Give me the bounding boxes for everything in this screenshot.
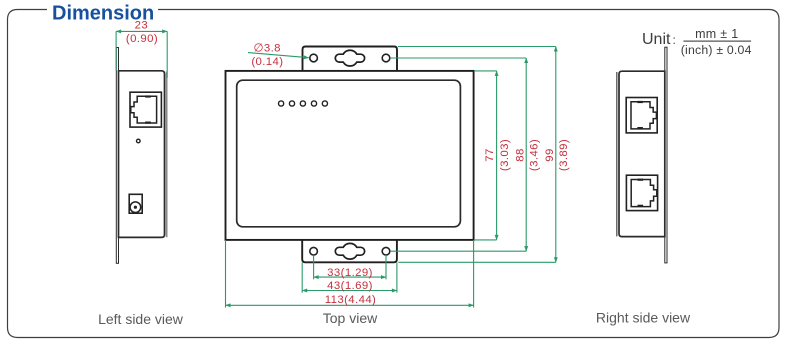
left view body	[119, 71, 165, 238]
left view dim 23 extension left	[115, 31, 117, 70]
dim 43 line	[302, 290, 397, 292]
svg-text:(0.90): (0.90)	[126, 33, 158, 45]
bottom tab right hole	[382, 247, 390, 255]
right view RJ45 jack 1 tab top	[637, 101, 643, 103]
svg-text:33(1.29): 33(1.29)	[327, 267, 373, 279]
top tab right hole	[382, 54, 390, 62]
right view RJ45 port 2 outer	[626, 175, 657, 210]
top view device body	[237, 80, 461, 227]
left view DC jack pin	[134, 206, 137, 209]
bottom tab keyhole slot	[335, 243, 364, 259]
svg-text:(3.03): (3.03)	[499, 139, 511, 171]
right view RJ45 jack 2 tab top	[638, 179, 644, 181]
LED hole 2	[289, 101, 294, 106]
dim 113 line	[226, 304, 474, 306]
svg-text:99: 99	[544, 148, 556, 161]
right view RJ45 jack 2 tab bottom	[638, 205, 644, 207]
left view dim 23 line	[116, 30, 167, 32]
right view body	[619, 71, 665, 236]
left view DC jack barrel circle	[130, 202, 141, 213]
svg-text:(3.46): (3.46)	[529, 139, 541, 171]
svg-text:43(1.69): 43(1.69)	[327, 280, 373, 292]
dim 33 line	[314, 276, 386, 278]
dim 99 extension lines	[398, 46, 556, 48]
left view RJ45 contact tab top	[145, 95, 151, 97]
dim 99 line	[555, 47, 557, 263]
dim 113 extension lines	[225, 240, 227, 308]
top view bottom tab	[302, 240, 397, 262]
unit fraction bar	[683, 40, 751, 42]
top tab left hole	[310, 54, 318, 62]
left view RJ45 port outer	[130, 92, 161, 127]
left view small hole	[137, 139, 141, 143]
LED hole 3	[300, 101, 305, 106]
svg-text:113(4.44): 113(4.44)	[325, 294, 377, 306]
right view RJ45 jack 1 tab bottom	[637, 127, 643, 129]
svg-text:Top view: Top view	[323, 310, 378, 326]
svg-text:mm ± 1: mm ± 1	[695, 27, 738, 41]
hole diameter leader line	[248, 53, 309, 58]
svg-text:77: 77	[484, 148, 496, 161]
svg-text:(0.14): (0.14)	[251, 56, 283, 68]
bottom tab left hole	[310, 247, 318, 255]
top tab keyhole slot	[335, 50, 364, 66]
svg-text:(3.89): (3.89)	[558, 139, 570, 171]
top view mounting plate	[226, 71, 474, 240]
left view RJ45 jack silhouette	[131, 96, 157, 123]
svg-text:88: 88	[515, 148, 527, 161]
right view RJ45 port 1 outer	[626, 98, 657, 133]
left view RJ45 contact tab bottom	[145, 122, 151, 124]
dim 77 line	[496, 71, 498, 240]
dim 77 extension lines	[474, 70, 497, 72]
LED hole 5	[322, 101, 327, 106]
left view dim 23 extension right	[166, 31, 168, 77]
LED hole 4	[311, 101, 316, 106]
top view top tab	[303, 47, 398, 71]
svg-text:Right side view: Right side view	[596, 310, 691, 326]
right view RJ45 jack 1 silhouette	[631, 102, 656, 129]
left view body shadow edge	[166, 72, 168, 238]
right view RJ45 jack 2 silhouette	[631, 180, 657, 207]
svg-text:23: 23	[135, 20, 148, 32]
right view body shadow edge	[616, 72, 618, 236]
dim 88 line	[525, 58, 527, 251]
LED hole 1	[279, 101, 284, 106]
left view DC jack rect	[129, 194, 142, 213]
left view mounting flange plate	[116, 48, 118, 264]
dim 88 extension lines	[390, 57, 526, 59]
svg-text:(inch) ± 0.04: (inch) ± 0.04	[681, 43, 752, 57]
right view mounting flange plate	[665, 47, 667, 263]
dim 33 extension lines	[313, 255, 315, 279]
dim 43 extension lines	[301, 263, 303, 293]
svg-text:Left side view: Left side view	[98, 311, 184, 327]
svg-text:∅3.8: ∅3.8	[254, 43, 281, 55]
